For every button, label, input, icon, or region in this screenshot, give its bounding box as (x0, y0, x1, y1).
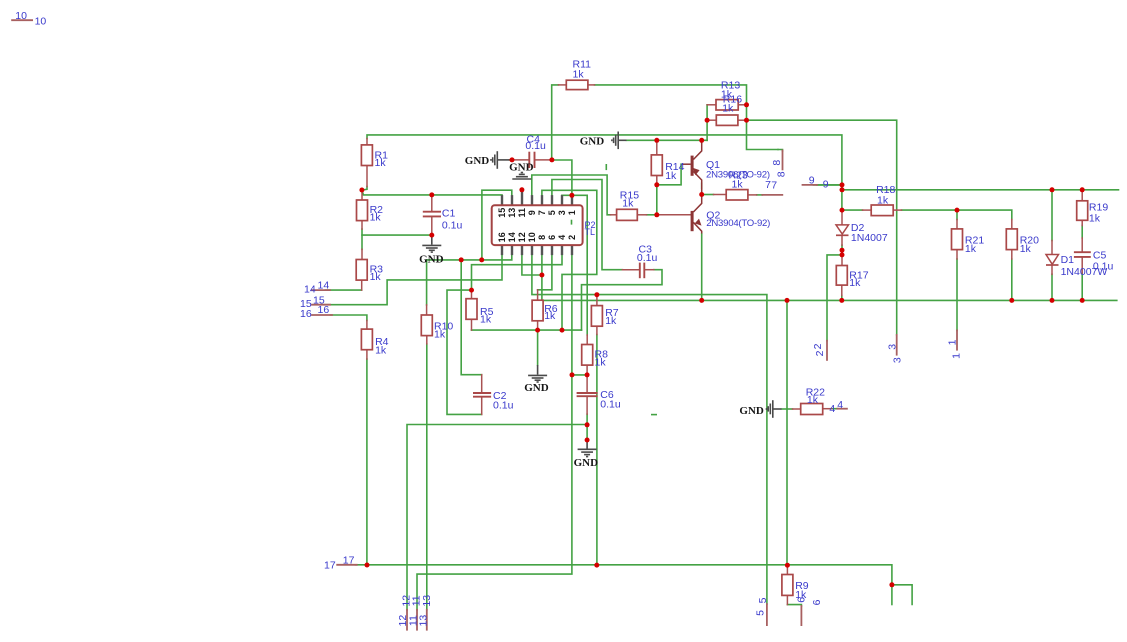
wire IC interior dash (571, 220, 573, 225)
svg-text:9: 9 (809, 175, 815, 187)
node R4 bottom net17 (365, 563, 370, 568)
wire R22 right gap (832, 408, 838, 410)
resistor R3 (356, 260, 367, 281)
wire D2 R17 node to terminal2 (827, 255, 842, 341)
wire node D2 anode to R18 left (842, 209, 863, 211)
terminal 6 stub (800, 606, 802, 625)
resistor R22 (801, 404, 823, 415)
wire R14 bottom to Q1 base (657, 164, 681, 185)
resistor R1 leads (366, 139, 368, 145)
node D2 R17 terminal2 (840, 252, 845, 257)
resistor R5 leads (471, 290, 473, 299)
ground symbol below R6 (528, 365, 547, 382)
svg-text:1k: 1k (1020, 243, 1032, 255)
wire R7 bottom down (596, 335, 598, 566)
wire R5 R6 bottom row to node A (472, 329, 582, 331)
wire R4 bottom to net17 row (366, 359, 368, 565)
wire R5 top left branch to C2 bottom (447, 290, 482, 414)
pin 12 stub (521, 245, 523, 255)
svg-text:7: 7 (771, 180, 777, 192)
svg-text:GND: GND (739, 405, 764, 417)
node R7 net17 (594, 563, 599, 568)
svg-text:D1: D1 (1061, 254, 1075, 266)
resistor R2 (357, 200, 368, 221)
capacitor C1 (423, 211, 441, 213)
resistor R14 leads (656, 140, 658, 155)
svg-text:12: 12 (517, 232, 527, 242)
svg-text:2N3904(TO-92): 2N3904(TO-92) (706, 218, 770, 229)
svg-text:10: 10 (15, 10, 27, 22)
ground symbol below C1 (422, 236, 441, 252)
wire R20 bottom to rail B (1011, 259, 1013, 300)
resistor R8 leads (586, 335, 588, 345)
node R1 R2 junction (359, 188, 364, 193)
transistor Q2 base lead (659, 214, 691, 216)
svg-text:1N4007W: 1N4007W (1061, 266, 1108, 278)
wire R1 top to net9 column (367, 135, 842, 210)
terminal 4 stub (837, 408, 847, 410)
wire C4 left to GND dot (510, 159, 513, 161)
node C1 top (429, 192, 434, 197)
svg-text:0.1u: 0.1u (442, 220, 463, 232)
svg-text:GND: GND (574, 457, 599, 469)
resistor R21 (952, 229, 963, 250)
svg-text:1k: 1k (807, 394, 819, 406)
wire R10 bottom to bottom pin13 (426, 344, 428, 610)
svg-text:2: 2 (812, 343, 824, 349)
wire hook right drop (892, 585, 912, 605)
node R20 bottom (1009, 298, 1014, 303)
resistor R7 (591, 306, 602, 327)
wire terminal8 drop (778, 150, 783, 152)
wire dash near R15 (605, 165, 607, 170)
resistor R13 leads (707, 104, 716, 106)
wire IC pin13 left drop (482, 190, 512, 260)
wire R13 R16 left column (706, 105, 708, 141)
resistor R4 leads (366, 321, 368, 330)
node Q1 emitter Q2 collector (699, 192, 704, 197)
resistor R3 leads (361, 249, 363, 259)
resistor R6 leads (537, 290, 539, 300)
svg-text:7: 7 (765, 179, 771, 191)
node C4 right (549, 157, 554, 162)
terminal 15 stub (312, 304, 330, 306)
svg-text:13: 13 (507, 208, 517, 218)
svg-text:1k: 1k (877, 194, 889, 206)
node rail B R9 column (785, 298, 790, 303)
wire R5 top to IC pin4 (472, 255, 563, 290)
svg-text:10: 10 (35, 15, 47, 27)
capacitor C5 (1074, 251, 1091, 253)
terminal 3 stub (896, 335, 898, 355)
node hook junction (889, 582, 894, 587)
svg-text:GND: GND (419, 253, 444, 265)
pin 7 stub (541, 195, 543, 205)
pin 10 stub (531, 245, 533, 255)
node R16 right (744, 118, 749, 123)
terminal 13 stub (426, 610, 428, 630)
resistor R20 leads (1011, 220, 1013, 229)
ground symbol below C6 (578, 440, 597, 457)
wire R17 bottom to rail B (841, 296, 843, 301)
node C6 GND (585, 438, 590, 443)
pin 5 stub (551, 195, 553, 205)
svg-text:1k: 1k (544, 310, 556, 322)
transistor Q2 (692, 195, 702, 234)
node R16 left (705, 118, 710, 123)
wire dash near C6 (652, 414, 656, 416)
svg-text:6: 6 (811, 599, 823, 605)
wire D1 bottom to rail B (1051, 274, 1053, 300)
wire GND to R22 left (782, 408, 793, 410)
pin 9 stub (531, 195, 533, 205)
svg-text:17: 17 (324, 560, 336, 572)
svg-text:C1: C1 (442, 208, 456, 220)
svg-text:11: 11 (517, 208, 527, 218)
terminal 1 stub (956, 330, 958, 349)
svg-text:1k: 1k (375, 345, 387, 357)
terminal 7 stub (762, 194, 782, 196)
svg-text:16: 16 (318, 304, 330, 316)
wire IC pin9 to R15 left (532, 175, 611, 215)
wire net9 row to D1/R19 right side (842, 189, 1119, 191)
wire IC pin6 to R6 top (538, 255, 552, 290)
pin 16 stub (501, 245, 503, 255)
node R19 top (1080, 187, 1085, 192)
svg-text:GND: GND (580, 135, 605, 147)
svg-text:1: 1 (947, 339, 959, 345)
svg-text:7: 7 (537, 210, 547, 215)
svg-text:1k: 1k (965, 243, 977, 255)
svg-text:5: 5 (757, 597, 769, 603)
capacitor C3 leads (622, 269, 639, 271)
svg-text:1k: 1k (849, 277, 861, 289)
svg-text:4: 4 (829, 403, 835, 415)
wire Q1 emitter segment (701, 183, 703, 188)
resistor R16 leads (707, 119, 716, 121)
resistor R10 leads (426, 305, 428, 315)
wire C6 bottom down to GND (586, 414, 588, 440)
svg-text:3: 3 (887, 344, 899, 350)
svg-text:1k: 1k (595, 357, 607, 369)
wire pin2 rail to R8 C6 node (572, 374, 587, 376)
node GND pin11 (519, 187, 524, 192)
wire C2 top branch (461, 260, 482, 375)
resistor R23 leads (714, 194, 727, 196)
wire IC pin16 to terminal15 (322, 255, 502, 305)
capacitor C1 leads (431, 196, 433, 211)
svg-text:4: 4 (837, 399, 843, 411)
svg-text:5: 5 (547, 210, 557, 215)
svg-text:GND: GND (465, 155, 490, 167)
resistor R5 (466, 299, 477, 320)
wire IC pin12 to pin8 column (522, 255, 542, 275)
wire terminal14 to R3 bottom (326, 289, 362, 291)
diode D2 leads (841, 210, 843, 225)
svg-text:TL: TL (585, 227, 596, 237)
node IC pin1 pin3 (569, 193, 574, 198)
svg-text:1k: 1k (370, 271, 382, 283)
svg-text:6: 6 (547, 235, 557, 240)
resistor R1 (361, 145, 372, 166)
svg-text:16: 16 (497, 232, 507, 242)
node R15 Q2 base (654, 212, 659, 217)
wire IC pin3 pin1 to R8 column (562, 195, 587, 335)
terminal 17 stub (337, 564, 357, 566)
resistor R19 (1077, 201, 1088, 221)
pin 2 stub (571, 245, 573, 255)
node net13 C2 branch (459, 257, 464, 262)
diode D1 (1046, 255, 1059, 265)
wire R9 bottom jog to bottom pin6 (787, 605, 801, 606)
svg-text:0.1u: 0.1u (600, 398, 621, 410)
wire R23 right to terminal7 (757, 194, 763, 196)
svg-text:8: 8 (771, 160, 783, 166)
wire GND to R14 Q1 (627, 139, 708, 141)
resistor R11 (566, 80, 588, 89)
capacitor C4 leads (512, 159, 529, 161)
wire terminal16 to R4 top (331, 315, 367, 321)
svg-text:1k: 1k (665, 170, 677, 182)
pin 11 stub with GND stem (521, 190, 523, 205)
node A C3 right (560, 328, 565, 333)
wire R16 right to terminal3 column (747, 120, 897, 335)
node C5 bottom (1080, 298, 1085, 303)
pin 4 stub (561, 245, 563, 255)
wire R14 bottom to R15 Q2 node (656, 185, 658, 215)
wire IC pin10 down long rail A to bottom pin5 (532, 255, 767, 604)
svg-text:14: 14 (507, 232, 517, 242)
resistor R19 leads (1081, 190, 1083, 201)
node R14 bottom (654, 182, 659, 187)
terminal 11 stub (416, 610, 418, 630)
resistor R21 leads (956, 220, 958, 229)
svg-text:5: 5 (755, 610, 767, 616)
wire C1 top row (431, 195, 433, 196)
capacitor C6 leads (586, 375, 588, 392)
pin 3 stub (561, 195, 563, 205)
svg-text:4: 4 (557, 235, 567, 240)
svg-text:1k: 1k (622, 198, 634, 210)
resistor R18 (871, 205, 893, 216)
svg-text:2N3906(TO-92): 2N3906(TO-92) (706, 169, 770, 180)
node Q2 emitter rail B (699, 298, 704, 303)
resistor R17 (836, 266, 847, 286)
wire rail B down to R9 top (786, 300, 788, 565)
pin 8 stub (541, 245, 543, 255)
svg-text:13: 13 (418, 615, 430, 627)
pin 1 stub (571, 195, 573, 205)
wire R21 bottom to terminal1 (956, 259, 958, 330)
wire net9 row to D1 top (1051, 190, 1053, 241)
svg-text:1N4007: 1N4007 (851, 232, 888, 244)
wire C5 bottom to rail B (1081, 273, 1083, 300)
svg-text:1k: 1k (434, 329, 446, 341)
resistor R15 leads (611, 214, 617, 216)
ground symbol above IC pin 11 (inverted) (512, 173, 531, 180)
svg-text:13: 13 (421, 595, 433, 607)
resistor R15 (617, 209, 638, 220)
wire Q2 emitter down to rail B (701, 234, 703, 301)
node D1 top (1050, 187, 1055, 192)
wire IC pin7 to node A column (542, 190, 597, 330)
node R8 C6 (585, 372, 590, 377)
node C4 left (510, 157, 515, 162)
node R21 top (955, 208, 960, 213)
wire IC pin8 down long rail B (542, 255, 1117, 300)
pin 14 stub (511, 245, 513, 255)
terminal 8 stub (782, 151, 784, 170)
capacitor C2 leads (481, 375, 483, 393)
resistor R20 (1006, 229, 1017, 250)
svg-text:8: 8 (537, 235, 547, 240)
wire R2 bottom to C1 and R3 (362, 229, 432, 235)
resistor R9 (782, 575, 793, 596)
op-amp U1 body P2 TL (492, 205, 583, 245)
resistor R11 leads (559, 84, 567, 86)
svg-text:1k: 1k (573, 69, 585, 81)
transistor Q1 (682, 143, 702, 195)
terminal 16 stub (312, 314, 332, 316)
svg-text:10: 10 (527, 232, 537, 242)
svg-text:3: 3 (557, 210, 567, 215)
ground symbol left of C4 (sideways) (491, 151, 510, 169)
svg-text:0.1u: 0.1u (525, 140, 546, 152)
node Q1 collector (699, 138, 704, 143)
resistor R22 leads (793, 408, 801, 410)
node C6 bottom (585, 422, 590, 427)
wire C3 right to node A (582, 270, 663, 330)
pin 6 stub (551, 245, 553, 255)
terminal 14 stub (312, 289, 330, 291)
svg-text:GND: GND (509, 162, 533, 174)
svg-text:2: 2 (814, 350, 826, 356)
node D1 bottom (1050, 298, 1055, 303)
capacitor C2 (473, 392, 491, 394)
ground symbol left of R22 (sideways) (767, 400, 782, 418)
svg-text:0.1u: 0.1u (493, 400, 514, 412)
capacitor C3 (639, 263, 641, 279)
terminal 5 stub (766, 604, 768, 625)
svg-text:8: 8 (776, 171, 788, 177)
svg-text:17: 17 (343, 554, 355, 566)
wire Q1 emitter Q2 collector node to R23 (702, 194, 714, 196)
svg-text:1: 1 (951, 353, 963, 359)
wire R11 right to R13 R16 terminal8 (595, 85, 779, 150)
pin 13 stub (511, 195, 513, 205)
resistor R2 leads (361, 190, 363, 200)
wire R18 right to R21 R20 tops (902, 210, 1012, 219)
resistor R13 (716, 100, 738, 110)
resistor R10 (421, 315, 432, 336)
node R7 top (594, 292, 599, 297)
svg-text:GND: GND (524, 382, 549, 394)
terminal 2 stub (826, 341, 828, 360)
node R8 bottom left (570, 372, 575, 377)
resistor R9 leads (786, 565, 788, 574)
wire terminal9 to net9 column (814, 184, 843, 186)
svg-text:16: 16 (300, 308, 312, 320)
wire hook left drop (891, 585, 893, 605)
node R17 bottom rail B (839, 298, 844, 303)
wire R6 bottom to GND (537, 330, 539, 365)
svg-text:9: 9 (823, 179, 829, 191)
svg-text:3: 3 (892, 357, 904, 363)
ground symbol near Q1 (sideways) (612, 132, 627, 150)
node R14 top (654, 138, 659, 143)
svg-text:2: 2 (567, 235, 577, 240)
resistor R18 leads (863, 209, 872, 211)
terminal 9 stub (803, 184, 818, 186)
node R6 bottom (535, 328, 540, 333)
svg-text:1k: 1k (480, 314, 492, 326)
diode D2 (836, 225, 849, 234)
svg-text:1k: 1k (605, 315, 617, 327)
wire IC pin5 to C3 left (552, 180, 623, 270)
svg-text:1k: 1k (722, 103, 734, 115)
svg-text:0.1u: 0.1u (637, 252, 658, 264)
diode D1 leads (1051, 241, 1053, 255)
node pin12 pin8 junction (539, 273, 544, 278)
capacitor C5 leads (1081, 238, 1083, 251)
svg-text:15: 15 (497, 208, 507, 218)
node R9 top net17 (785, 563, 790, 568)
svg-text:1: 1 (567, 210, 577, 215)
resistor R14 (651, 155, 662, 176)
wire IC pin1 up to C4 node (552, 160, 572, 195)
node R18 left D2 (840, 208, 845, 213)
wire net 13-14 row R10 top (427, 255, 512, 305)
svg-text:1k: 1k (370, 211, 382, 223)
terminal 12 stub (406, 610, 408, 630)
wire C6 bottom row to bottom pin12 (407, 425, 587, 610)
resistor R7 leads (596, 295, 598, 306)
resistor R17 leads (841, 255, 843, 266)
node net9 row (840, 187, 845, 192)
wire R2 C1 node down to R3 top (361, 235, 363, 249)
wire R19 to C5 link (1081, 226, 1083, 239)
capacitor C4 (528, 152, 530, 168)
node R13 right (744, 102, 749, 107)
node R5 top (469, 288, 474, 293)
node net13 pin13 branch (479, 257, 484, 262)
wire R1 R2 node to IC pin15 (362, 190, 502, 195)
resistor R8 (582, 345, 593, 366)
resistor R4 (361, 329, 372, 350)
resistor R16 (716, 115, 738, 125)
svg-text:1k: 1k (375, 157, 387, 169)
node terminal9 (840, 182, 845, 187)
node C1 bottom GND (429, 233, 434, 238)
terminal 10 stub (12, 19, 32, 21)
op-amp U1 pin 15 stub (501, 195, 503, 205)
wire R15 right to node (647, 214, 659, 216)
resistor R6 (532, 300, 543, 321)
node D2 cathode (840, 248, 845, 253)
svg-text:6: 6 (795, 597, 807, 603)
wire Q1 collector node (701, 140, 703, 142)
capacitor C6 (577, 392, 598, 394)
wire R21 top branch (956, 210, 958, 219)
wire IC pin2 down to bottom pin11 (417, 255, 572, 610)
wire R11 left to C4 node (552, 85, 559, 160)
svg-text:14: 14 (318, 280, 330, 292)
resistor R23 (726, 190, 748, 200)
wire D2 cathode to R17 node (841, 245, 843, 256)
wire R1 bottom jog (363, 187, 368, 191)
svg-text:9: 9 (527, 210, 537, 215)
wire terminal9 stub green part (817, 184, 842, 186)
